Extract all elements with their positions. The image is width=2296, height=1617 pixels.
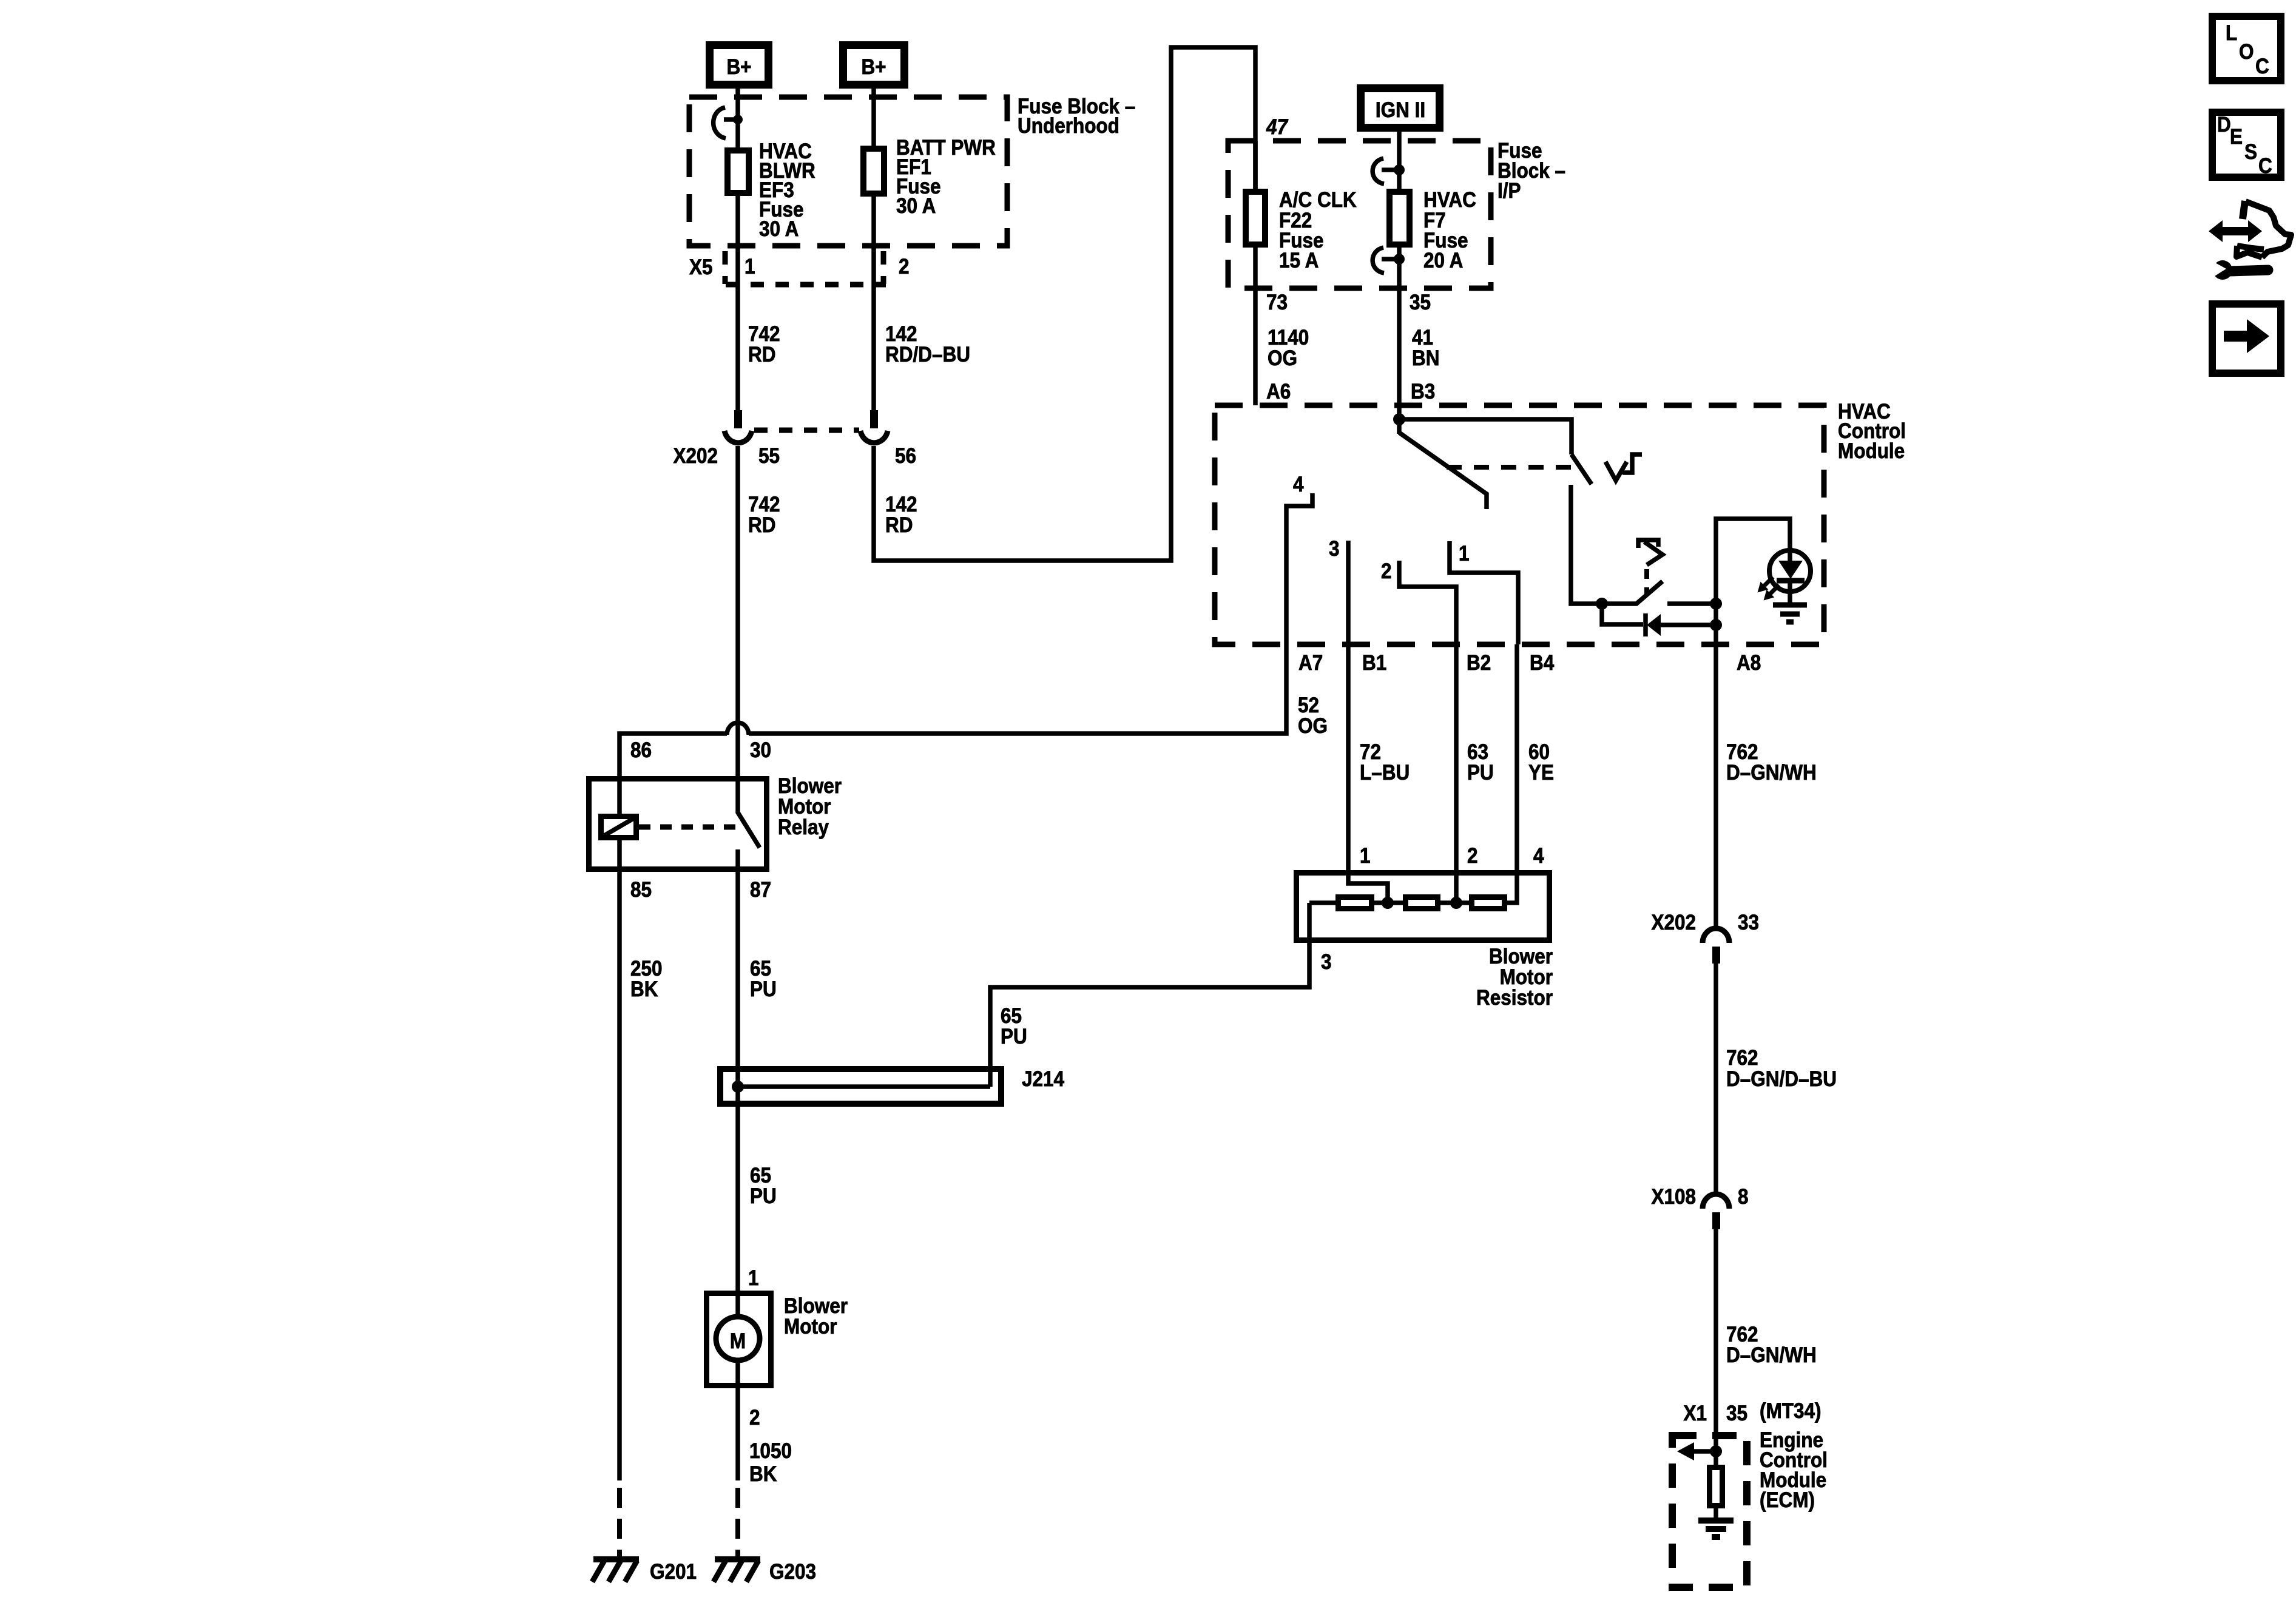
diode branch wire: [1602, 604, 1643, 624]
svg-text:47: 47: [1266, 116, 1288, 140]
wire B2 to resistor 2: [1454, 644, 1459, 903]
svg-text:73: 73: [1266, 291, 1288, 315]
svg-text:4: 4: [1293, 473, 1304, 497]
pull-up resistor in ECM: [1714, 1451, 1718, 1465]
wire EF1 to X5 pin 2: [871, 197, 876, 410]
svg-text:PU: PU: [1001, 1025, 1027, 1049]
svg-text:20 A: 20 A: [1423, 249, 1463, 273]
svg-text:4: 4: [1533, 845, 1544, 868]
thermal element symbol: [1638, 540, 1658, 548]
svg-text:X5: X5: [689, 256, 713, 280]
svg-text:RD: RD: [748, 343, 775, 367]
wire B1 to resistor 1: [1348, 644, 1388, 903]
node R1-R2 junction: [1382, 897, 1394, 909]
svg-text:8: 8: [1738, 1186, 1749, 1209]
svg-text:2: 2: [749, 1406, 760, 1430]
node B3 junction: [1397, 405, 1402, 434]
power symbol B+ (right, BATT PWR feed): [843, 46, 905, 85]
svg-text:PU: PU: [750, 1185, 777, 1209]
ground (LED internal): [1773, 603, 1807, 608]
wire F22 output to HVAC module A6: [1253, 248, 1258, 405]
wire 47 inside fuse block: [1253, 141, 1258, 189]
fuse block underhood dashed outline: [689, 97, 1007, 246]
fuse EF3 (HVAC BLWR 30 A): [728, 150, 749, 193]
node diode junction on A8: [1710, 619, 1722, 631]
svg-text:Resistor: Resistor: [1476, 987, 1553, 1010]
svg-text:B+: B+: [861, 56, 886, 79]
svg-text:YE: YE: [1528, 761, 1554, 785]
node feed tap above F7: [1394, 164, 1405, 175]
svg-text:86: 86: [630, 739, 652, 763]
svg-text:RD: RD: [748, 514, 775, 538]
svg-text:D–GN/D–BU: D–GN/D–BU: [1726, 1068, 1837, 1092]
blower motor resistor box: [1297, 873, 1550, 940]
auto-reset symbol: [1606, 462, 1627, 481]
svg-text:1: 1: [1360, 845, 1371, 868]
svg-text:OG: OG: [1268, 347, 1297, 371]
relay contact armature: [738, 776, 760, 848]
power symbol B+ (left, HVAC BLWR feed): [710, 46, 769, 85]
connector X202 pin 55: [734, 410, 742, 428]
svg-text:E: E: [2230, 126, 2243, 149]
svg-text:OG: OG: [1298, 715, 1328, 738]
signal arrow into ECM: [1693, 1449, 1716, 1454]
node bus tap at EF3 input: [733, 115, 743, 124]
svg-text:56: 56: [895, 445, 916, 468]
svg-text:1050: 1050: [749, 1440, 792, 1463]
icon DESC box: [2212, 112, 2281, 178]
blower motor: [707, 1294, 771, 1386]
fixed contact to A8: [1667, 601, 1716, 606]
node R2-R3 junction: [1450, 897, 1462, 909]
svg-text:L: L: [2226, 22, 2237, 46]
svg-text:1: 1: [1459, 542, 1470, 566]
fuse F7 (HVAC 20 A): [1389, 192, 1410, 245]
wire A8 to X202-33: [1714, 644, 1718, 930]
resistor element R1: [1339, 897, 1372, 909]
svg-text:IGN II: IGN II: [1376, 99, 1425, 123]
relay link coil to armature: [639, 825, 735, 830]
svg-text:X202: X202: [673, 445, 718, 468]
splice J214: [720, 1069, 1001, 1104]
svg-text:BK: BK: [630, 978, 658, 1002]
svg-text:2: 2: [899, 255, 910, 279]
svg-text:B3: B3: [1411, 380, 1435, 404]
svg-text:S: S: [2244, 141, 2257, 164]
svg-text:X202: X202: [1651, 911, 1696, 935]
svg-text:33: 33: [1738, 911, 1759, 935]
fan switch blade (upper): [1572, 454, 1592, 484]
wire X202-55 to relay 30: [735, 446, 740, 776]
svg-text:A8: A8: [1737, 652, 1761, 675]
wire IGN II to F7: [1397, 132, 1402, 189]
svg-text:G201: G201: [650, 1561, 697, 1584]
fuse F22 (A/C CLK 15 A): [1246, 192, 1265, 245]
blower motor relay box: [589, 779, 767, 869]
HVAC control module dashed outline: [1215, 405, 1824, 644]
svg-text:1: 1: [745, 255, 755, 279]
svg-text:M: M: [730, 1330, 746, 1354]
wire B+1 to fuse EF3: [735, 89, 740, 147]
svg-text:D–GN/WH: D–GN/WH: [1726, 1344, 1817, 1368]
svg-text:B+: B+: [726, 56, 751, 79]
svg-text:O: O: [2239, 41, 2254, 64]
svg-text:C: C: [2258, 155, 2272, 178]
wire 762 D-GN/WH to ECM: [1714, 1229, 1718, 1451]
svg-text:Module: Module: [1838, 440, 1905, 464]
diode (blocking): [1643, 613, 1648, 636]
svg-text:30 A: 30 A: [896, 195, 936, 218]
ground G203: [715, 1556, 760, 1562]
engine control module dashed outline: [1672, 1436, 1747, 1587]
svg-text:30 A: 30 A: [759, 218, 799, 241]
svg-text:35: 35: [1726, 1402, 1747, 1426]
svg-text:2: 2: [1381, 560, 1392, 584]
svg-text:(MT34): (MT34): [1760, 1400, 1821, 1423]
resistor element R3: [1472, 897, 1505, 909]
svg-text:30: 30: [750, 739, 771, 763]
svg-text:35: 35: [1410, 291, 1431, 315]
wire relay 87 to blower motor (65 PU): [735, 872, 740, 1291]
blower speed selector lever: [1399, 433, 1487, 509]
wire B4 to resistor 4: [1507, 644, 1517, 903]
svg-text:D: D: [2217, 113, 2231, 137]
wire 762 D-GN/D-BU: [1714, 964, 1718, 1195]
wire X202-56 loop to fuse block I/P: [874, 47, 1255, 561]
resistor element R2: [1406, 897, 1438, 909]
svg-text:A6: A6: [1266, 380, 1291, 404]
node ECM input junction: [1710, 1445, 1722, 1457]
svg-text:2: 2: [1467, 845, 1478, 868]
svg-text:(ECM): (ECM): [1760, 1489, 1815, 1513]
svg-text:Motor: Motor: [784, 1315, 837, 1339]
svg-text:L–BU: L–BU: [1360, 761, 1410, 785]
wire EF3 to X5 pin 1: [735, 196, 740, 410]
wire motor to G203: [735, 1388, 740, 1480]
ground G201: [593, 1556, 639, 1562]
svg-text:G203: G203: [769, 1561, 816, 1584]
wire resistor 3 to J214: [990, 903, 1309, 1087]
svg-text:55: 55: [758, 445, 780, 468]
svg-text:X1: X1: [1683, 1402, 1707, 1426]
mechanical link thermal to blade: [1644, 569, 1649, 595]
svg-text:PU: PU: [1467, 761, 1494, 785]
mechanical link lever to blade: [1447, 465, 1578, 470]
svg-text:A7: A7: [1298, 652, 1323, 675]
fuse block I/P dashed outline: [1228, 141, 1491, 288]
svg-text:BN: BN: [1412, 347, 1439, 371]
svg-text:X108: X108: [1651, 1186, 1696, 1209]
svg-text:J214: J214: [1022, 1068, 1065, 1092]
relay coil: [617, 776, 622, 814]
icon LOC box: [2212, 16, 2281, 81]
node A8 upper junction: [1710, 598, 1722, 610]
svg-text:3: 3: [1329, 538, 1340, 561]
LED indicator: [1769, 550, 1811, 592]
svg-text:B4: B4: [1530, 652, 1555, 675]
svg-text:I/P: I/P: [1497, 180, 1521, 203]
svg-text:C: C: [2255, 55, 2269, 79]
svg-text:B1: B1: [1362, 652, 1386, 675]
connector X5 boundary: [723, 251, 728, 284]
svg-text:PU: PU: [750, 978, 777, 1002]
svg-text:85: 85: [630, 879, 652, 902]
svg-text:3: 3: [1321, 951, 1332, 974]
wire A7 to relay 86 (52 OG) with hop over 742 RD: [749, 644, 1286, 734]
wire relay 85 to G201: [617, 872, 622, 1480]
switch lower contact wire: [1571, 485, 1602, 604]
wire B3 to fan switch: [1399, 419, 1572, 454]
svg-text:15 A: 15 A: [1279, 249, 1319, 273]
node switch common junction: [1596, 598, 1608, 610]
power symbol IGN II: [1361, 89, 1440, 128]
svg-text:87: 87: [750, 879, 771, 902]
icon adjust/hand tool: [2207, 201, 2291, 280]
connector X202 pin 56: [870, 410, 878, 428]
svg-text:B2: B2: [1467, 652, 1491, 675]
svg-text:Underhood: Underhood: [1018, 115, 1119, 138]
svg-text:BK: BK: [749, 1463, 777, 1487]
svg-text:Relay: Relay: [778, 816, 829, 840]
svg-text:RD/D–BU: RD/D–BU: [885, 343, 970, 367]
wire A8 riser: [1716, 519, 1790, 644]
svg-text:1: 1: [748, 1267, 759, 1291]
resistor chain wires: [1309, 900, 1335, 905]
icon next-section arrow box: [2212, 304, 2281, 373]
svg-text:762: 762: [1726, 1047, 1758, 1070]
svg-text:D–GN/WH: D–GN/WH: [1726, 761, 1817, 785]
ground (ECM internal): [1698, 1517, 1734, 1524]
svg-text:RD: RD: [885, 514, 913, 538]
LED light arrows: [1754, 573, 1777, 596]
connector X202 link: [754, 428, 859, 433]
fuse EF1 (BATT PWR 30 A): [871, 89, 876, 146]
node feed tap below F7: [1397, 248, 1402, 405]
relay contact blade (lower): [1602, 581, 1663, 604]
